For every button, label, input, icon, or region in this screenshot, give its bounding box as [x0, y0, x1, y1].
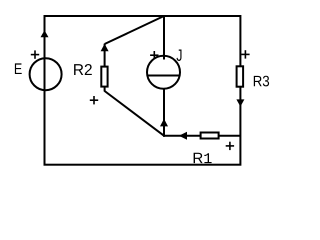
arrow on E wire (up) [41, 30, 49, 37]
arrow at R2 top (up) [101, 44, 109, 52]
voltage source E (circle) [30, 58, 62, 90]
wire J branch upper stub [163, 15, 165, 60]
current source J bar [147, 75, 181, 77]
plus sign J [150, 51, 158, 59]
wire J branch lower stub [163, 89, 165, 137]
resistor R1 body [201, 133, 219, 139]
wire diagonal top junction to R2 [105, 16, 164, 44]
current source J (circle) [147, 56, 180, 89]
resistor R3 body [237, 66, 244, 86]
arrow on J lower wire (up) [160, 119, 168, 127]
wire horizontal R1 branch [164, 135, 241, 137]
label R2 [74, 64, 92, 75]
arrow on R3 wire (down) [236, 99, 244, 106]
plus sign R3 [241, 50, 249, 58]
wire outer loop [45, 16, 241, 165]
label R3 [254, 76, 269, 87]
label E [15, 63, 22, 74]
plus sign R2 [90, 96, 98, 104]
arrow on R1 branch (left) [179, 132, 187, 140]
wire R2 vertical [104, 44, 106, 92]
wire diagonal R2 bottom to node [105, 91, 165, 136]
label J [177, 50, 182, 62]
plus sign R1 [226, 142, 234, 150]
resistor R2 body [101, 67, 107, 87]
plus sign E [31, 50, 39, 58]
label R1 [194, 153, 212, 163]
